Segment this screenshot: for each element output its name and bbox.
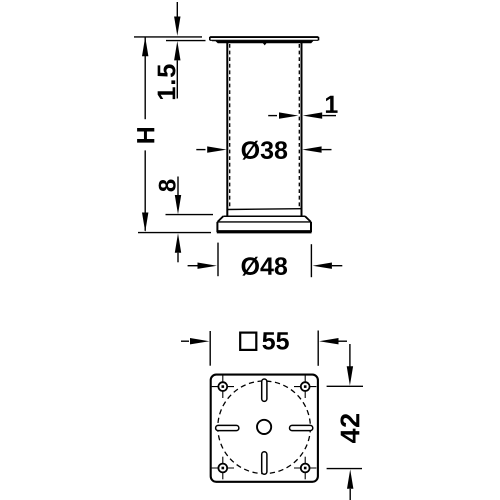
screw hole bottom-left xyxy=(212,457,234,480)
42 arrow up xyxy=(347,469,353,488)
d48 left arrow xyxy=(188,265,199,267)
42 label xyxy=(340,414,359,443)
42 ext line top xyxy=(327,385,363,387)
screw hole top-right xyxy=(294,375,316,398)
8 arrow down xyxy=(175,195,181,214)
d48 ext line left xyxy=(217,243,219,277)
tube inner dashed left xyxy=(229,44,231,208)
dashed circle xyxy=(218,381,311,474)
tube inner dashed right xyxy=(298,44,300,208)
1.5 arrow down xyxy=(174,17,180,36)
slot bottom xyxy=(262,452,267,474)
center notch xyxy=(263,43,267,46)
8 dim tail upper xyxy=(177,177,179,196)
center hole xyxy=(257,420,271,434)
foot base bottom thick xyxy=(217,231,312,234)
top plate (side view) xyxy=(210,37,319,41)
H label xyxy=(137,128,154,143)
8 ext line top xyxy=(166,214,214,216)
sq55 label xyxy=(262,332,288,349)
d38 right arrow xyxy=(302,146,321,152)
slot right xyxy=(290,425,313,430)
8 label xyxy=(159,180,176,192)
bottom ext line (H and 8) xyxy=(138,232,211,234)
slot left xyxy=(216,425,239,430)
screw hole top-left xyxy=(212,375,234,398)
H dimension line lower xyxy=(144,150,146,230)
1.5 dim tail lower xyxy=(176,60,178,98)
bottom view: square plate xyxy=(211,375,318,482)
foot base left chamfer xyxy=(218,216,224,222)
foot base mid line xyxy=(218,221,311,223)
H dimension line upper xyxy=(144,38,146,120)
slot top xyxy=(262,379,267,401)
side view: 1.5 bottom reference line xyxy=(166,40,206,42)
side view: extension line top reference xyxy=(134,36,202,38)
foot base top flat xyxy=(223,215,305,217)
d48 right arrow xyxy=(313,263,332,269)
8 dim tail lower xyxy=(177,253,179,263)
sq55 square symbol xyxy=(240,333,256,350)
foot collar top line xyxy=(227,208,301,211)
H arrow up xyxy=(142,37,148,56)
1.5 dim tail upper xyxy=(176,2,178,17)
8 arrow up xyxy=(175,233,181,252)
sq55 right arrow xyxy=(319,338,338,344)
foot base right chamfer xyxy=(305,216,311,222)
foot base outline xyxy=(217,222,311,231)
42 arrow down xyxy=(349,344,351,367)
d48 label xyxy=(242,257,287,276)
screw hole bottom-right xyxy=(294,457,316,480)
1.5 arrow up xyxy=(174,41,180,60)
d38 left arrow xyxy=(196,149,205,151)
1.5 label xyxy=(158,64,176,99)
plate lip xyxy=(212,41,314,44)
tube left wall xyxy=(226,43,228,216)
sq55 ext line right xyxy=(317,331,319,366)
sq55 ext line left xyxy=(209,331,211,366)
H arrow down xyxy=(142,213,148,232)
tube right wall xyxy=(301,43,303,216)
d38 label xyxy=(242,141,287,160)
1 dim right arrow xyxy=(303,112,322,118)
d48 ext line right xyxy=(310,244,312,277)
1 dim left arrow xyxy=(268,115,277,117)
1 label xyxy=(326,96,338,113)
sq55 left arrow xyxy=(181,340,189,342)
42 ext line bottom xyxy=(327,468,362,470)
